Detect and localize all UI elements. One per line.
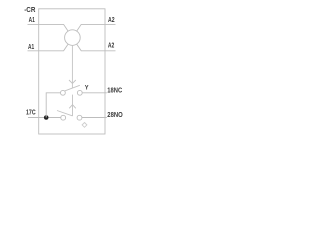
svg-text:28NO: 28NO — [107, 112, 123, 119]
svg-text:A1: A1 — [29, 17, 35, 24]
actuator stem upper — [71, 45, 73, 88]
svg-text:A1: A1 — [28, 44, 34, 51]
arrowhead up — [69, 105, 76, 109]
wire NO to 28NO — [82, 117, 107, 119]
wire branch dot to NC — [46, 93, 60, 118]
svg-text:18NC: 18NC — [107, 87, 122, 94]
svg-text:A2: A2 — [108, 42, 114, 49]
mechanical latch diamond — [82, 123, 87, 128]
svg-text:-CR: -CR — [24, 7, 35, 14]
arrowhead down — [69, 80, 76, 84]
wire NC to 18NC — [82, 92, 107, 94]
contact NC right terminal — [77, 90, 82, 95]
wire A1 top — [28, 24, 69, 31]
contact NC movable bar — [65, 85, 80, 91]
actuator stem lower — [72, 95, 74, 116]
svg-text:A2: A2 — [108, 17, 115, 24]
wire A1 bottom — [28, 44, 69, 51]
contact NC left terminal — [61, 90, 66, 95]
contact NO right terminal — [77, 115, 82, 120]
junction dot — [44, 115, 49, 120]
svg-text:17C: 17C — [26, 109, 36, 116]
relay enclosure box — [39, 9, 105, 134]
wire A2 bottom — [77, 44, 116, 51]
wire A2 top — [77, 24, 116, 31]
svg-text:Y: Y — [85, 85, 89, 92]
contact NO movable bar — [57, 111, 73, 116]
wire 17C common — [28, 117, 61, 119]
contact NO left terminal — [61, 115, 66, 120]
coil CR — [65, 30, 81, 46]
